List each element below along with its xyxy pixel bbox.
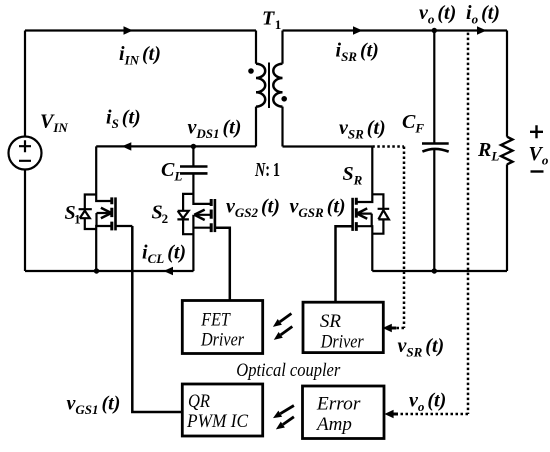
- wire top right (secondary to output): [283, 29, 508, 31]
- optocoupler arrow 1 between QR PWM IC and Error Amp: [273, 406, 294, 419]
- arrow iCL: [164, 267, 174, 275]
- dotted feedback lines: [372, 33, 468, 414]
- S1 arrow to channel: [97, 213, 112, 226]
- arrowhead vSR into SR Driver: [383, 324, 392, 333]
- transformer T1 secondary winding: [273, 64, 282, 107]
- MOSFET SR: [336, 147, 390, 303]
- transformer T1 secondary lead top: [281, 31, 283, 64]
- S1 channel segments: [110, 197, 113, 230]
- svg-text:N: 1: N: 1: [254, 159, 280, 181]
- transformer T1 primary lead bottom: [255, 107, 257, 147]
- arrow iSR: [353, 26, 363, 34]
- SR gate bar: [351, 198, 354, 231]
- svg-text:Driver: Driver: [200, 330, 244, 351]
- svg-text:SR: SR: [320, 311, 342, 332]
- wire RL bottom lead: [506, 164, 508, 271]
- SR gate lead: [336, 226, 353, 302]
- svg-text:io(t): io(t): [466, 2, 500, 27]
- box Error Amp: [303, 386, 385, 439]
- arrow iS: [122, 142, 132, 150]
- svg-text:Driver: Driver: [320, 332, 364, 353]
- node CF bottom junction: [432, 268, 437, 273]
- node vDS1 junction: [191, 144, 196, 149]
- svg-text:FET: FET: [200, 310, 231, 331]
- SR body diode branch: [372, 194, 383, 233]
- dotted vSR sense wire: [372, 147, 404, 329]
- S1 source tap and lead: [96, 226, 112, 271]
- S1 gate bar: [114, 197, 117, 230]
- arrow iIN: [124, 26, 134, 34]
- S2 source tap and lead: [193, 215, 211, 271]
- optocoupler arrow 1 between FET Driver and SR Driver: [273, 314, 292, 327]
- svg-text:iS(t): iS(t): [106, 107, 141, 132]
- label plus output: [530, 125, 543, 138]
- svg-text:PWM IC: PWM IC: [186, 411, 248, 432]
- S2 body diode branch: [183, 194, 193, 234]
- svg-text:vo(t): vo(t): [409, 390, 446, 415]
- svg-text:QR: QR: [188, 391, 210, 412]
- SR channel segments: [355, 198, 358, 231]
- svg-text:Error: Error: [316, 394, 361, 415]
- box QR PWM IC: [182, 384, 262, 436]
- transformer core: [268, 63, 270, 109]
- driver boxes: [182, 301, 384, 439]
- S2 channel segments: [210, 199, 213, 232]
- SR source tap and lead: [356, 226, 372, 271]
- wire bottom rail primary side: [25, 270, 194, 272]
- arrowhead vo into Error Amp: [384, 410, 393, 419]
- arrow io: [477, 26, 487, 34]
- S2 drain lead: [193, 173, 211, 204]
- svg-text:Amp: Amp: [315, 414, 352, 435]
- S1 body diode: [79, 209, 92, 218]
- node vo junction: [432, 28, 437, 33]
- dotted vo sense wire: [394, 33, 468, 414]
- node S1 source junction: [94, 268, 99, 273]
- wire top left (input to transformer primary): [25, 29, 256, 31]
- voltage source VIN: [9, 137, 42, 170]
- wire right vertical RL top lead: [506, 31, 508, 137]
- wire vSR horizontal: [283, 145, 373, 147]
- S2 body diode (pointing down): [177, 211, 189, 220]
- svg-text:vo(t): vo(t): [419, 2, 456, 27]
- capacitor CF plates: [422, 142, 449, 145]
- capacitor CF top lead: [433, 31, 435, 144]
- SR drain lead: [356, 147, 372, 203]
- box SR Driver: [303, 302, 383, 352]
- transformer T1 secondary lead bottom: [281, 107, 283, 147]
- svg-text:Optical coupler: Optical coupler: [236, 360, 341, 381]
- SR body diode (pointing up): [378, 209, 390, 220]
- resistor RL: [501, 137, 513, 165]
- S1 drain lead: [96, 146, 112, 201]
- wire left vertical (VIN branch): [24, 31, 26, 272]
- SR arrow to channel: [357, 214, 372, 227]
- S2 arrow pointing left: [194, 214, 211, 216]
- transformer T1 primary lead top: [255, 31, 257, 64]
- optocoupler arrow 2 between FET Driver and SR Driver: [274, 327, 293, 340]
- transformer secondary polarity dot: [281, 96, 287, 102]
- wire vGS1 from S1 gate to QR PWM IC: [132, 226, 182, 412]
- wire iS horizontal (vDS1 node wire): [96, 145, 256, 147]
- capacitor CL top lead: [192, 146, 194, 166]
- capacitor CF bottom lead: [433, 150, 435, 272]
- transformer T1 primary winding: [256, 64, 265, 107]
- wire bottom rail secondary side: [372, 270, 507, 272]
- MOSFET S1: [79, 146, 133, 271]
- MOSFET S2: [177, 173, 229, 300]
- label minus output: [531, 170, 544, 172]
- S2 gate lead: [215, 228, 230, 301]
- S2 gate bar: [214, 199, 217, 232]
- capacitor CL plates: [180, 167, 208, 174]
- box FET Driver: [182, 301, 262, 354]
- S1 body diode branch: [85, 195, 96, 230]
- S1 gate lead: [116, 225, 133, 227]
- optocoupler arrow 2 between QR PWM IC and Error Amp: [276, 417, 294, 430]
- transformer primary polarity dot: [248, 68, 254, 74]
